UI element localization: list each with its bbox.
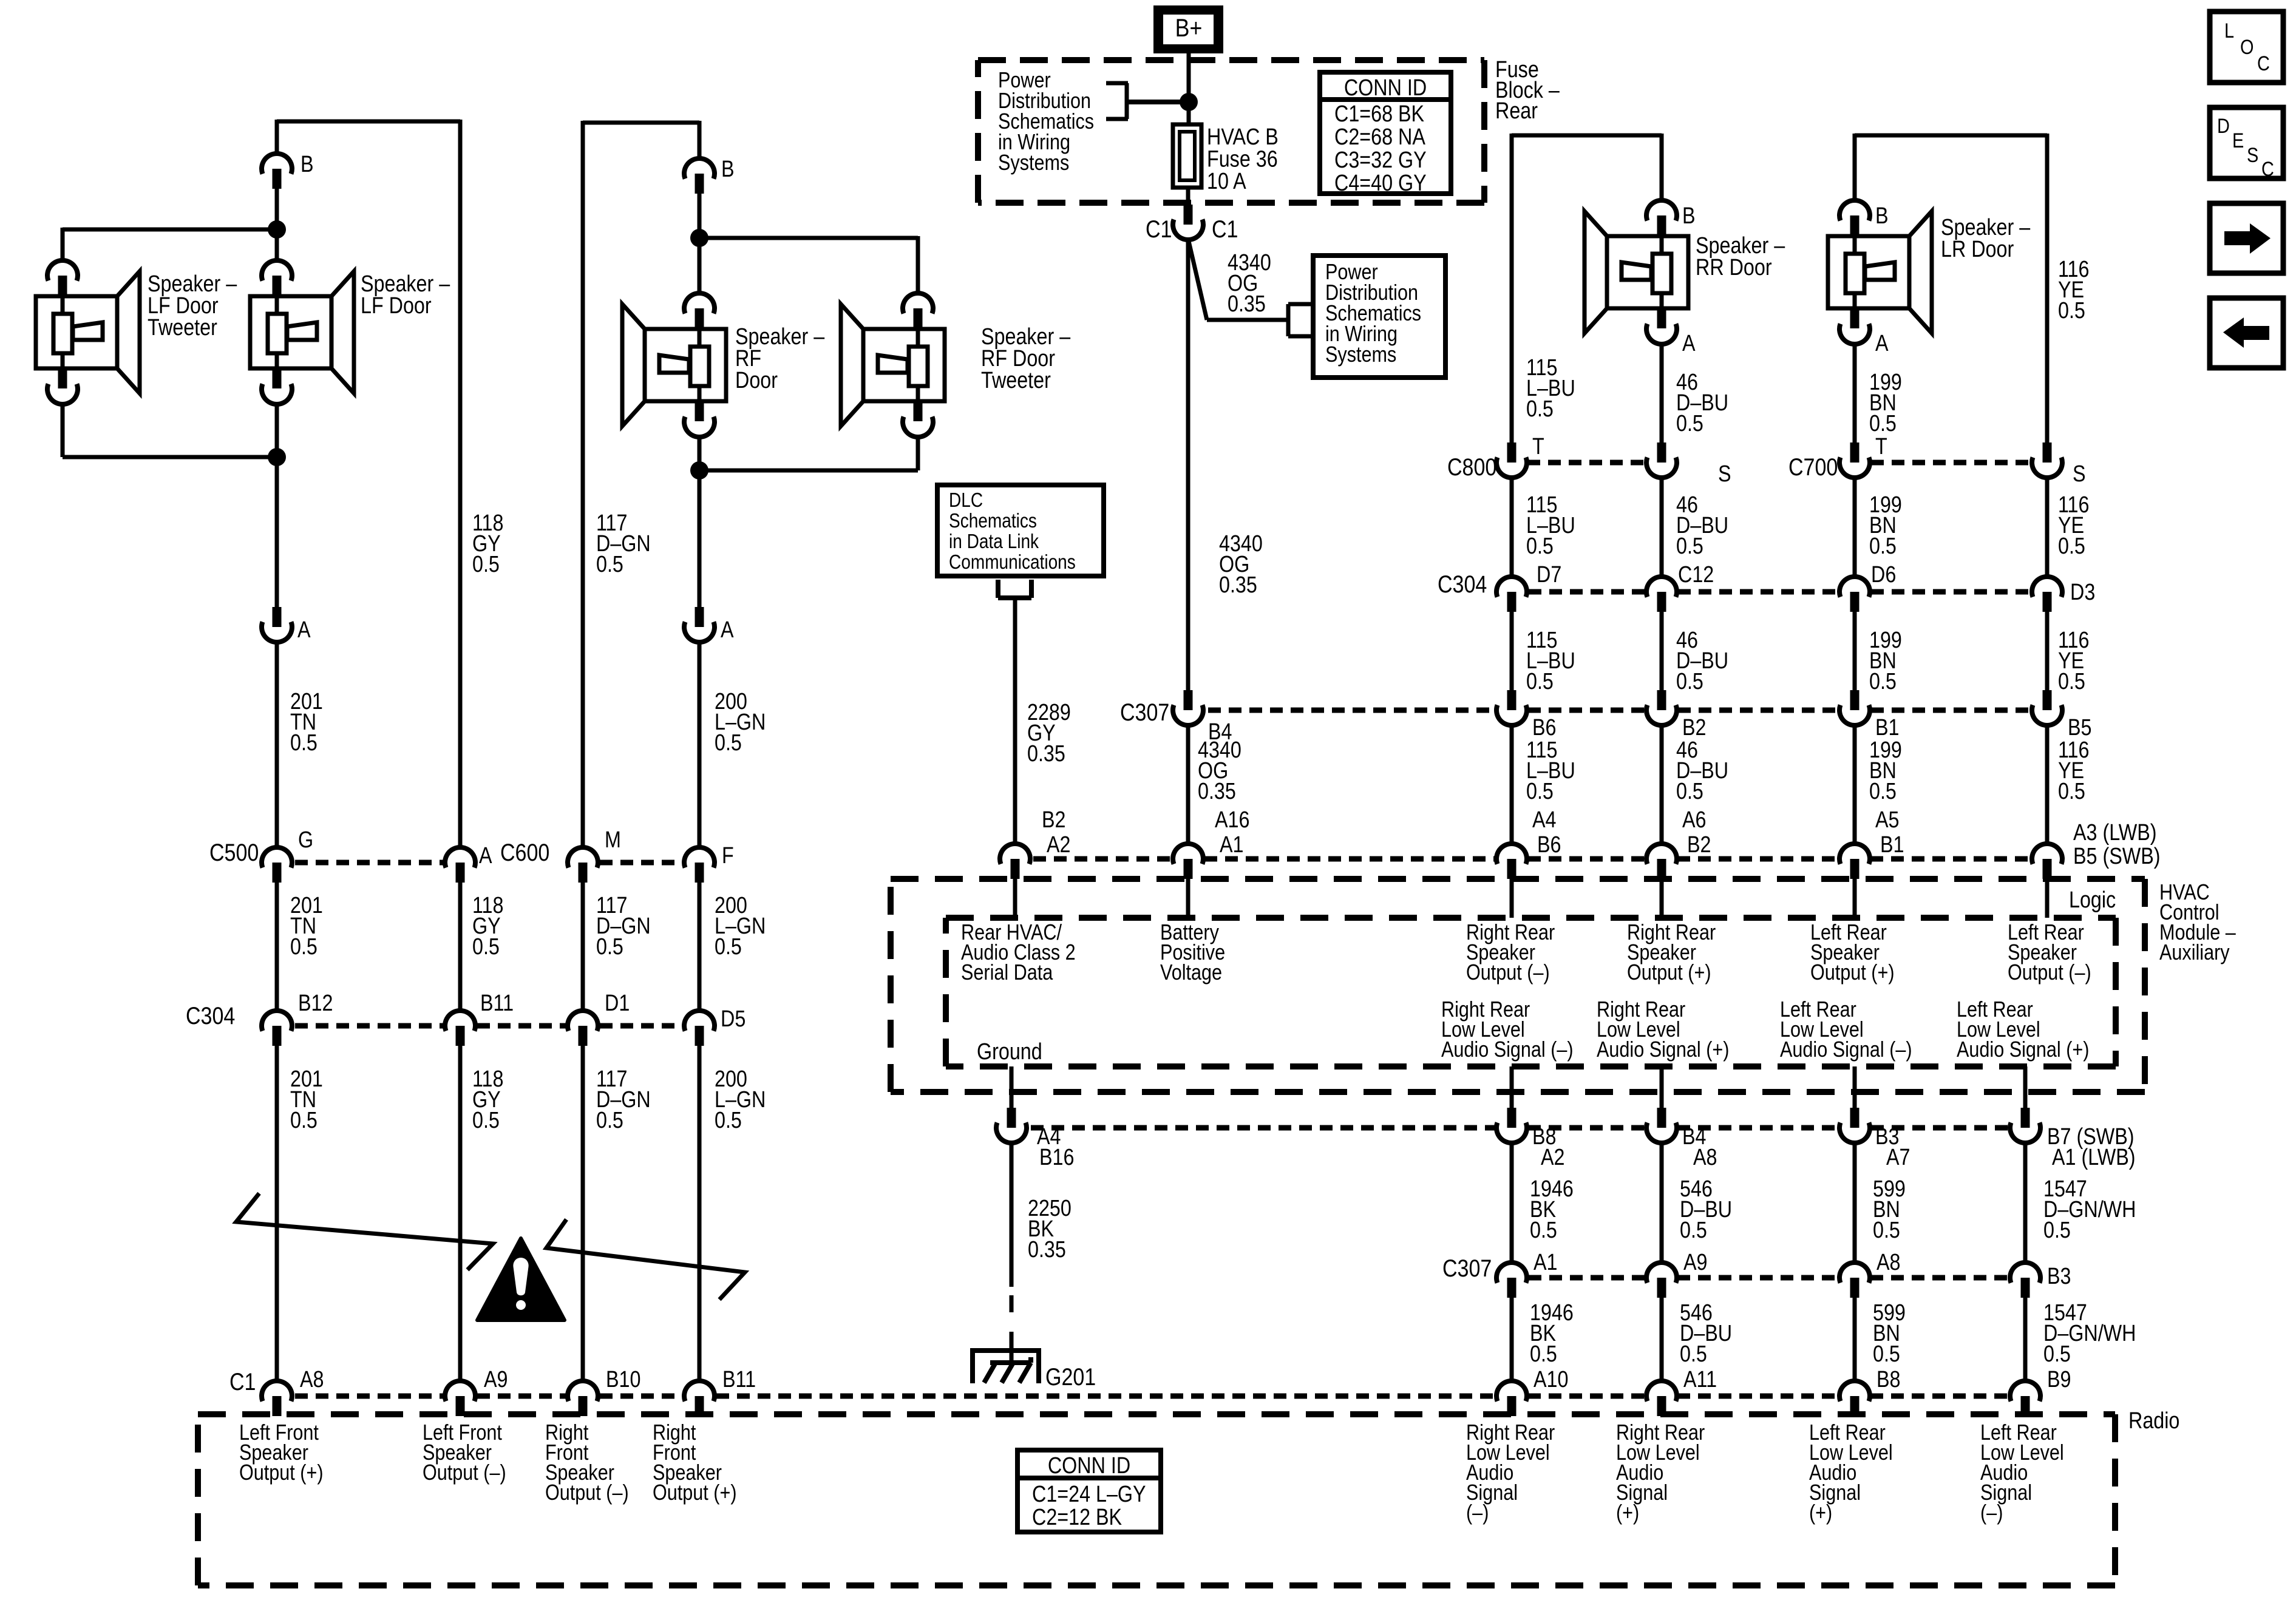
- svg-text:D3: D3: [2070, 580, 2095, 605]
- wire RR B drop: [1660, 134, 1664, 200]
- svg-text:CONN ID: CONN ID: [1344, 75, 1427, 101]
- svg-text:B+: B+: [1175, 14, 1203, 42]
- svg-text:A9: A9: [484, 1367, 508, 1392]
- svg-text:A6: A6: [1682, 807, 1706, 833]
- svg-text:B5 (SWB): B5 (SWB): [2073, 844, 2161, 869]
- svg-text:C1=68 BK: C1=68 BK: [1334, 101, 1425, 127]
- svg-text:D6: D6: [1871, 562, 1896, 588]
- wire B to junction RF: [698, 194, 702, 238]
- label Right Rear Speaker Output plus: [1627, 921, 1716, 985]
- svg-text:B: B: [301, 152, 314, 177]
- svg-text:A8: A8: [300, 1367, 324, 1392]
- wire LF top rail: [277, 120, 460, 124]
- svg-text:0.5: 0.5: [596, 1108, 623, 1133]
- svg-text:0.5: 0.5: [290, 934, 318, 960]
- label Right Rear Low Level Audio Signal minus (radio): [1466, 1421, 1555, 1525]
- svg-text:D1: D1: [605, 991, 630, 1016]
- svg-text:B8: B8: [1877, 1367, 1900, 1392]
- wire RF top rail: [583, 121, 699, 125]
- svg-text:(+): (+): [1616, 1501, 1639, 1525]
- wire 599 BN segment 1: [1855, 1143, 1906, 1263]
- svg-text:0.5: 0.5: [1526, 534, 1554, 559]
- svg-text:Serial Data: Serial Data: [961, 961, 1053, 985]
- svg-text:B1: B1: [1880, 832, 1904, 858]
- svg-text:LR Door: LR Door: [1941, 237, 2014, 262]
- svg-text:0.5: 0.5: [715, 934, 742, 960]
- wire RR top rail: [1512, 134, 1662, 138]
- svg-text:0.5: 0.5: [290, 1108, 318, 1133]
- svg-text:0.5: 0.5: [2043, 1218, 2071, 1243]
- svg-text:B: B: [1875, 203, 1889, 229]
- label Rear HVAC Audio Class 2 Serial Data: [961, 921, 1076, 985]
- label Left Rear Speaker Output plus: [1810, 921, 1895, 985]
- label Left Rear Low Level Audio Signal plus: [1957, 998, 2089, 1062]
- label Left Rear Low Level Audio Signal minus (radio): [1980, 1421, 2064, 1525]
- label Speaker - LR Door: [1941, 215, 2031, 262]
- svg-text:Output (–): Output (–): [423, 1461, 506, 1485]
- svg-text:0.5: 0.5: [1680, 1218, 1707, 1243]
- connector C307 battery: [1120, 690, 1232, 745]
- connector row C700: [1788, 434, 2086, 487]
- power feed B+: [1153, 5, 1223, 53]
- wire 115 L-BU segment 4: [1512, 725, 1575, 858]
- wire 201 TN segment 2: [277, 883, 323, 1011]
- svg-text:0.5: 0.5: [1873, 1341, 1900, 1367]
- wire 46 D-BU segment 2: [1662, 478, 1728, 577]
- svg-text:S: S: [1718, 461, 1731, 487]
- svg-text:Systems: Systems: [998, 151, 1069, 175]
- svg-text:A1: A1: [1220, 832, 1243, 858]
- svg-text:CONN ID: CONN ID: [1048, 1453, 1130, 1479]
- connector row HVAC bottom dashes: [1031, 1125, 2009, 1131]
- svg-text:0.5: 0.5: [2058, 534, 2085, 559]
- svg-text:Ground: Ground: [977, 1039, 1042, 1065]
- connector A9 radio: [445, 1367, 508, 1416]
- svg-text:0.5: 0.5: [1869, 669, 1897, 694]
- svg-text:0.5: 0.5: [1530, 1341, 1557, 1367]
- svg-text:0.5: 0.5: [2058, 298, 2085, 324]
- svg-text:Audio Signal (–): Audio Signal (–): [1441, 1038, 1574, 1062]
- svg-text:B16: B16: [1039, 1145, 1074, 1170]
- label Battery Positive Voltage: [1160, 921, 1225, 985]
- svg-text:A1 (LWB): A1 (LWB): [2052, 1145, 2136, 1170]
- wire B to junction: [275, 189, 279, 229]
- connector B7/A1: [2010, 1108, 2136, 1170]
- svg-text:A: A: [721, 617, 734, 643]
- connector A8 radio: [262, 1367, 324, 1416]
- connector row C304 right: [1438, 562, 2095, 612]
- label Ground: [977, 1039, 1042, 1065]
- svg-text:Schematics: Schematics: [949, 510, 1037, 532]
- svg-text:(+): (+): [1809, 1501, 1832, 1525]
- svg-text:A3 (LWB): A3 (LWB): [2073, 820, 2157, 846]
- box Power Distribution Schematics in Wiring Systems: [1313, 256, 1445, 378]
- label Speaker - RR Door: [1696, 233, 1785, 280]
- svg-text:A16: A16: [1215, 807, 1249, 833]
- wire 117 D-GN segment 2: [583, 883, 651, 1011]
- svg-text:(–): (–): [1466, 1501, 1489, 1525]
- connector pin A5/B1 into HVAC: [1839, 844, 1870, 918]
- svg-text:0.5: 0.5: [715, 1108, 742, 1133]
- wire stub serial data into box: [1013, 879, 1017, 918]
- svg-text:A5: A5: [1875, 807, 1899, 833]
- wire LF tweeter branch top: [63, 228, 277, 261]
- svg-text:D: D: [2217, 114, 2230, 138]
- wire 116 YE segment 3: [2047, 612, 2089, 694]
- svg-text:G201: G201: [1045, 1363, 1096, 1390]
- svg-text:B12: B12: [298, 991, 333, 1016]
- connector B (Speaker RF): [684, 157, 735, 194]
- connector row C307 lower: [1442, 1250, 2071, 1298]
- wire 200 L-GN segment 3: [699, 1046, 766, 1381]
- label Right Rear Low Level Audio Signal minus: [1441, 998, 1574, 1062]
- label Speaker - LF Door Tweeter: [148, 271, 237, 341]
- wire 2250 BK: [1011, 1143, 1072, 1363]
- icon arrow right box: [2210, 203, 2283, 273]
- node junction RF top: [690, 229, 708, 247]
- svg-text:B3: B3: [2047, 1264, 2071, 1289]
- svg-text:B: B: [721, 157, 735, 182]
- bracket to power distribution text: [1106, 83, 1189, 119]
- wire stub RR low level plus: [1660, 1066, 1664, 1108]
- node junction RF bottom: [690, 461, 708, 480]
- label Power Distribution Schematics in Wiring Systems (fuse block): [998, 69, 1094, 175]
- break symbol right: [546, 1219, 745, 1300]
- svg-text:LF Door: LF Door: [361, 293, 432, 319]
- label Speaker - RF Door: [735, 324, 825, 393]
- svg-text:G: G: [298, 827, 313, 853]
- label Left Rear Low Level Audio Signal minus: [1780, 998, 1912, 1062]
- svg-text:Audio Signal (–): Audio Signal (–): [1780, 1038, 1912, 1062]
- connector A (Speaker LF): [262, 607, 311, 643]
- svg-text:0.5: 0.5: [472, 552, 500, 577]
- wire 201 TN segment 1: [277, 642, 323, 847]
- label Right Rear Low Level Audio Signal plus (radio): [1616, 1421, 1705, 1525]
- svg-text:0.35: 0.35: [1028, 1237, 1066, 1263]
- warning triangle: [477, 1238, 565, 1320]
- svg-text:0.5: 0.5: [1873, 1218, 1900, 1243]
- wire 115 L-BU segment 2: [1512, 478, 1575, 577]
- wire 199 BN segment 2: [1855, 478, 1902, 577]
- svg-text:A: A: [479, 843, 492, 869]
- wire 118 GY segment 3: [460, 1046, 503, 1381]
- label Fuse Block - Rear: [1495, 57, 1560, 124]
- svg-text:C12: C12: [1678, 562, 1714, 588]
- svg-text:B11: B11: [722, 1367, 756, 1392]
- svg-text:0.5: 0.5: [1526, 396, 1554, 422]
- icon arrow left box: [2210, 298, 2283, 368]
- wire 546 D-BU segment 2: [1662, 1298, 1732, 1381]
- label Right Front Speaker Output plus: [653, 1421, 737, 1505]
- svg-text:B11: B11: [480, 991, 514, 1016]
- connector A4/B16 ground: [996, 1108, 1074, 1170]
- svg-text:A7: A7: [1886, 1145, 1910, 1170]
- svg-text:0.5: 0.5: [596, 934, 623, 960]
- wire 46 D-BU segment 1: [1662, 344, 1728, 442]
- svg-text:C: C: [2257, 52, 2270, 75]
- wire 4340 OG battery segment 2: [1188, 725, 1241, 844]
- wire 199 BN segment 1: [1855, 344, 1902, 442]
- wire 200 L-GN segment 1: [699, 642, 766, 847]
- wire B+ to fuse: [1187, 53, 1191, 124]
- svg-text:C1=24 L–GY: C1=24 L–GY: [1032, 1482, 1146, 1507]
- svg-text:Communications: Communications: [949, 551, 1076, 574]
- svg-text:C304: C304: [186, 1002, 235, 1029]
- wire 4340 OG branch to power distribution: [1188, 239, 1288, 320]
- box HVAC Control Module outer: [891, 879, 2145, 1092]
- label HVAC Control Module - Auxiliary: [2159, 881, 2236, 965]
- wire RF tweeter branch bottom: [699, 437, 918, 470]
- wire 199 BN segment 4: [1855, 725, 1904, 858]
- connector B8 radio: [1839, 1367, 1900, 1416]
- speaker LF Door: [250, 260, 354, 404]
- svg-text:0.5: 0.5: [715, 730, 742, 756]
- svg-text:M: M: [605, 827, 621, 853]
- svg-text:C307: C307: [1442, 1254, 1492, 1281]
- svg-text:0.5: 0.5: [1676, 779, 1703, 804]
- wire 200 L-GN segment 2: [699, 883, 766, 1011]
- label Left Rear Low Level Audio Signal plus (radio): [1809, 1421, 1893, 1525]
- fuse block dashed box: [978, 60, 1484, 203]
- wire stub battery into box: [1186, 879, 1190, 918]
- bracket to power distribution box: [1288, 304, 1312, 336]
- wire LF down to A: [275, 457, 279, 607]
- svg-text:C700: C700: [1788, 453, 1838, 480]
- svg-text:D5: D5: [721, 1006, 746, 1032]
- speaker LF Door Tweeter: [36, 260, 140, 404]
- svg-text:C600: C600: [500, 838, 549, 866]
- svg-text:D7: D7: [1537, 562, 1561, 588]
- wire 546 D-BU segment 1: [1662, 1143, 1732, 1263]
- wire 116 YE segment 4: [2047, 725, 2161, 869]
- connector pin A16/A1 (battery): [1173, 807, 1249, 879]
- svg-text:A: A: [1875, 331, 1889, 356]
- svg-text:C2=12 BK: C2=12 BK: [1032, 1505, 1123, 1530]
- wire 1547 D-GN/WH segment 2: [2025, 1298, 2136, 1381]
- svg-text:0.35: 0.35: [1219, 572, 1257, 598]
- wire RF main to speaker: [698, 238, 702, 294]
- node junction LF top: [268, 220, 286, 239]
- wire 115 L-BU segment 1: [1512, 134, 1575, 442]
- ground G201: [973, 1351, 1096, 1391]
- box HVAC Logic inner: [946, 918, 2116, 1066]
- svg-text:Voltage: Voltage: [1160, 961, 1222, 985]
- connector B11 radio: [684, 1367, 756, 1416]
- connector B1 (C307): [1839, 690, 1899, 741]
- svg-text:C1: C1: [229, 1368, 256, 1395]
- svg-text:0.5: 0.5: [1530, 1218, 1557, 1243]
- icon DESC box: [2210, 107, 2283, 181]
- svg-text:A8: A8: [1693, 1145, 1717, 1170]
- svg-text:A: A: [1682, 331, 1696, 356]
- svg-text:C800: C800: [1447, 453, 1496, 480]
- svg-text:C307: C307: [1120, 698, 1169, 725]
- svg-text:A2: A2: [1541, 1145, 1564, 1170]
- table CONN ID (radio): [1017, 1450, 1161, 1532]
- connector row C307 dashes: [1208, 708, 2032, 713]
- svg-text:C3=32 GY: C3=32 GY: [1334, 147, 1427, 173]
- svg-text:0.5: 0.5: [1869, 534, 1897, 559]
- svg-text:S: S: [2073, 461, 2086, 487]
- connector B10 radio: [568, 1367, 640, 1416]
- fuse HVAC B Fuse 36 10A: [1173, 124, 1279, 194]
- connector A10 radio: [1496, 1367, 1568, 1416]
- connector pin A6/B2 into HVAC: [1646, 844, 1677, 918]
- wire LF B drop: [275, 120, 279, 154]
- svg-text:C4=40 GY: C4=40 GY: [1334, 171, 1427, 196]
- wire stub LR low level plus: [2023, 1066, 2028, 1108]
- wire 2289 GY: [1015, 598, 1071, 844]
- svg-text:A4: A4: [1532, 807, 1556, 833]
- wire fuse to C1: [1186, 188, 1190, 205]
- speaker LR Door: [1828, 200, 1932, 356]
- wire LR top rail: [1855, 134, 2047, 138]
- svg-text:A1: A1: [1533, 1250, 1557, 1275]
- svg-text:(–): (–): [1980, 1501, 2003, 1525]
- svg-text:Audio Signal (+): Audio Signal (+): [1957, 1038, 2089, 1062]
- wire 116 YE segment 2: [2047, 478, 2089, 577]
- label Radio: [2128, 1408, 2179, 1434]
- connector row C1 radio: [229, 1368, 2009, 1396]
- svg-text:Tweeter: Tweeter: [981, 368, 1051, 393]
- label Right Front Speaker Output minus: [545, 1421, 629, 1505]
- svg-text:A2: A2: [1047, 832, 1070, 858]
- svg-text:in Data Link: in Data Link: [949, 531, 1039, 553]
- connector pin B2/A2 (serial data): [1000, 807, 1070, 879]
- box DLC Schematics in Data Link Communications: [937, 485, 1104, 576]
- svg-text:A9: A9: [1683, 1250, 1707, 1275]
- wire 1547 D-GN/WH segment 1: [2025, 1143, 2136, 1263]
- svg-text:T: T: [1875, 434, 1887, 459]
- svg-text:B2: B2: [1682, 715, 1706, 741]
- svg-text:C1: C1: [1212, 215, 1238, 242]
- svg-text:E: E: [2232, 129, 2244, 152]
- connector B (Speaker LF): [262, 152, 314, 189]
- wire LF tweeter branch bottom: [63, 404, 277, 457]
- break symbol left: [236, 1193, 493, 1270]
- svg-text:B6: B6: [1537, 832, 1561, 858]
- connector A (Speaker RF): [684, 607, 734, 643]
- svg-text:RR Door: RR Door: [1696, 255, 1772, 280]
- wire 1946 BK segment 1: [1512, 1143, 1574, 1263]
- svg-text:Tweeter: Tweeter: [148, 315, 217, 341]
- svg-text:Output (–): Output (–): [2008, 961, 2091, 985]
- wire LR B drop: [1853, 134, 1857, 200]
- svg-text:0.35: 0.35: [1228, 291, 1266, 317]
- wire ground stub: [1010, 1066, 1014, 1108]
- svg-text:0.5: 0.5: [2058, 779, 2085, 804]
- svg-text:A8: A8: [1877, 1250, 1900, 1275]
- wire 199 BN segment 3: [1855, 612, 1902, 694]
- table CONN ID (fuse block): [1320, 72, 1451, 196]
- wire 118 GY segment 2: [460, 883, 503, 1011]
- svg-text:0.35: 0.35: [1198, 779, 1236, 804]
- connector B6 (C307): [1496, 690, 1556, 741]
- node junction at bracket: [1180, 93, 1198, 111]
- wire stub LR low level minus: [1853, 1066, 1857, 1108]
- svg-text:DLC: DLC: [949, 489, 983, 512]
- svg-text:Output (+): Output (+): [1810, 961, 1895, 985]
- label Logic: [2063, 886, 2121, 913]
- wire LF main to speaker: [275, 229, 279, 261]
- connector B9 radio: [2010, 1367, 2071, 1416]
- label Left Front Speaker Output plus: [239, 1421, 324, 1485]
- wire 117 D-GN segment 3: [583, 1046, 651, 1381]
- label Left Rear Speaker Output minus: [2008, 921, 2091, 985]
- bracket below DLC box: [998, 580, 1031, 598]
- svg-text:A11: A11: [1683, 1367, 1717, 1392]
- svg-text:C: C: [2261, 157, 2274, 181]
- wire 201 TN segment 3: [277, 1046, 323, 1381]
- svg-text:0.5: 0.5: [1680, 1341, 1707, 1367]
- label Speaker - RF Door Tweeter: [981, 324, 1071, 393]
- svg-text:Systems: Systems: [1325, 343, 1396, 367]
- svg-text:B9: B9: [2047, 1367, 2071, 1392]
- wire RF B drop: [698, 121, 702, 158]
- speaker RF Door Tweeter: [841, 293, 945, 437]
- connector B3/A7: [1839, 1108, 1910, 1170]
- connector row HVAC C1/C2: [1033, 856, 2032, 862]
- wire 4340 OG battery segment 1: [1188, 239, 1263, 690]
- svg-text:Auxiliary: Auxiliary: [2159, 941, 2230, 965]
- svg-text:B2: B2: [1687, 832, 1711, 858]
- svg-text:Audio Signal (+): Audio Signal (+): [1597, 1038, 1729, 1062]
- svg-text:L: L: [2224, 19, 2234, 42]
- svg-text:0.5: 0.5: [1676, 534, 1703, 559]
- connector row C800: [1447, 434, 1731, 487]
- svg-text:0.5: 0.5: [2043, 1341, 2071, 1367]
- connector pin A4/B6 into HVAC: [1496, 844, 1527, 918]
- svg-text:0.5: 0.5: [472, 1108, 500, 1133]
- svg-text:Output (+): Output (+): [239, 1461, 324, 1485]
- svg-text:F: F: [722, 843, 734, 869]
- svg-text:Door: Door: [735, 368, 778, 393]
- svg-text:Radio: Radio: [2128, 1408, 2179, 1434]
- svg-text:0.5: 0.5: [1869, 779, 1897, 804]
- svg-text:Output (–): Output (–): [1466, 961, 1550, 985]
- svg-text:0.5: 0.5: [1676, 411, 1703, 436]
- wire 118 GY segment 1: [460, 120, 503, 847]
- label Right Rear Low Level Audio Signal plus: [1597, 998, 1729, 1062]
- connector row C304 left: [186, 991, 746, 1046]
- label Left Front Speaker Output minus: [423, 1421, 506, 1485]
- svg-text:0.5: 0.5: [1676, 669, 1703, 694]
- svg-text:B: B: [1682, 203, 1696, 229]
- svg-text:B1: B1: [1875, 715, 1899, 741]
- wire 115 L-BU segment 3: [1512, 612, 1575, 694]
- svg-text:0.5: 0.5: [472, 934, 500, 960]
- svg-text:Output (–): Output (–): [545, 1481, 629, 1505]
- svg-text:Rear: Rear: [1495, 98, 1538, 124]
- wire 46 D-BU segment 3: [1662, 612, 1728, 694]
- svg-text:T: T: [1532, 434, 1544, 459]
- box Radio: [198, 1414, 2115, 1585]
- wire RF main below speaker: [698, 437, 702, 470]
- svg-text:0.5: 0.5: [1526, 669, 1554, 694]
- svg-text:S: S: [2247, 143, 2258, 167]
- wire 46 D-BU segment 4: [1662, 725, 1728, 858]
- wire stub RR low level minus: [1510, 1066, 1514, 1108]
- wire 1946 BK segment 2: [1512, 1298, 1574, 1381]
- svg-text:0.5: 0.5: [290, 730, 318, 756]
- svg-text:Output (+): Output (+): [1627, 961, 1711, 985]
- svg-text:10 A: 10 A: [1207, 169, 1246, 194]
- node junction LF bottom: [268, 448, 286, 466]
- connector B4/A8: [1646, 1108, 1717, 1170]
- label Speaker - LF Door: [361, 271, 450, 319]
- svg-text:C2=68 NA: C2=68 NA: [1334, 124, 1425, 150]
- wire 117 D-GN segment 1: [583, 121, 651, 847]
